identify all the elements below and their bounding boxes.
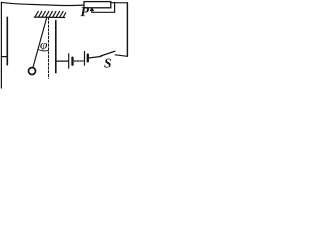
- svg-text:P: P: [80, 5, 89, 20]
- battery cell 1 long electrode: [68, 54, 70, 68]
- battery cell 1 short electrode: [71, 58, 73, 65]
- wire battery to switch: [89, 57, 101, 59]
- wire left vertical: [0, 2, 2, 88]
- wire switch to right corner: [115, 55, 127, 57]
- svg-text:S: S: [104, 56, 112, 71]
- switch blade: [101, 51, 115, 56]
- battery cell 2 long electrode: [84, 52, 86, 66]
- svg-text:φ: φ: [40, 38, 48, 52]
- wire bottom from right plate: [56, 60, 68, 62]
- battery cell 2 short electrode: [87, 55, 89, 62]
- wire stub to left plate: [1, 56, 7, 58]
- wire top right from rheostat: [111, 2, 127, 4]
- angle arc: [39, 50, 49, 51]
- dashed equilibrium line: [48, 18, 50, 79]
- pendulum string: [33, 17, 47, 67]
- capacitor plate right: [55, 21, 57, 73]
- junction dot: [114, 2, 116, 4]
- rheostat P body: [84, 2, 111, 8]
- ceiling hatching: [35, 11, 66, 17]
- switch contact dot: [100, 55, 102, 57]
- rheostat wiper arrow: [90, 7, 94, 11]
- capacitor plate left: [6, 17, 8, 65]
- wire top from left corner to rheostat: [1, 2, 84, 5]
- ceiling support line: [34, 16, 65, 18]
- rheostat wiper wire: [92, 3, 115, 13]
- wire right vertical: [126, 3, 128, 56]
- dashed wire between cells: [74, 60, 83, 62]
- pendulum bob: [29, 68, 36, 75]
